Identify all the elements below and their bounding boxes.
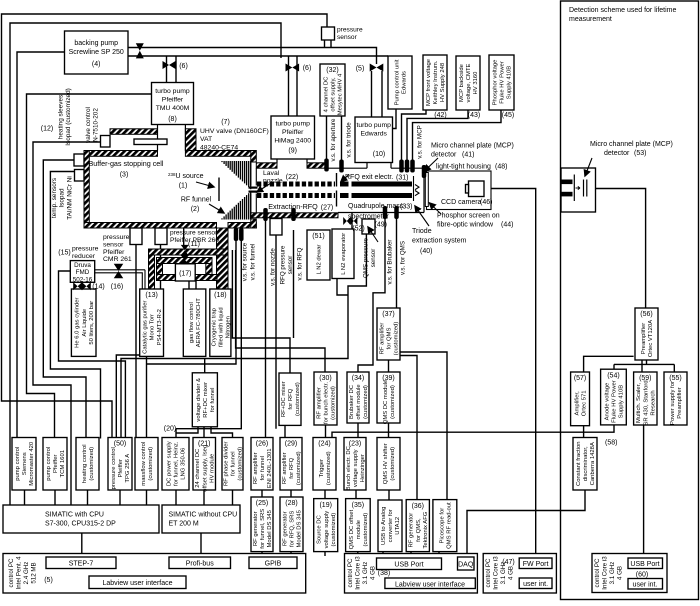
arrow U source bbox=[196, 182, 214, 187]
TMU neck left bbox=[157, 125, 159, 151]
svg-text:gas flow control: gas flow control bbox=[189, 302, 195, 343]
gas pipe coil inner band lower bbox=[157, 275, 218, 281]
valve 6 TMU bbox=[163, 61, 176, 69]
QMS chamber top wall right bbox=[391, 167, 424, 169]
svg-text:4 GB: 4 GB bbox=[507, 566, 514, 580]
svg-text:voltage supply: voltage supply bbox=[324, 511, 330, 549]
svg-text:VAT: VAT bbox=[200, 136, 212, 143]
wire TMU400M to pump control TCM bbox=[27, 94, 152, 438]
box constant fraction discriminator 58 bbox=[573, 438, 597, 491]
wire amplifier to CFD bbox=[583, 426, 585, 438]
box QMS HV shifter bbox=[377, 438, 400, 491]
box RF amplifier funnel 26 bbox=[251, 438, 273, 491]
svg-text:SIMATIC without CPU: SIMATIC without CPU bbox=[169, 512, 238, 519]
U-238 source rod bbox=[218, 178, 220, 202]
svg-text:offset module: offset module bbox=[356, 384, 362, 420]
svg-text:filled with liquid: filled with liquid bbox=[218, 307, 224, 347]
svg-text:(3): (3) bbox=[120, 172, 129, 179]
feedthrough MCP4 bbox=[422, 165, 427, 178]
pipe QMS to LN2 evaporator bbox=[351, 213, 353, 230]
box heating control bbox=[76, 438, 99, 491]
svg-text:(1): (1) bbox=[179, 183, 188, 190]
svg-text:Isopad (customized): Isopad (customized) bbox=[65, 88, 72, 146]
wire QMS RF to RF generator QMS bbox=[400, 356, 417, 500]
svg-text:(customized): (customized) bbox=[363, 513, 369, 547]
wire pressure reducer to pressure control bbox=[59, 271, 126, 438]
svg-text:ET 200 M: ET 200 M bbox=[169, 520, 199, 527]
Edwards neck right bbox=[390, 163, 392, 169]
box turbo pump HiMag 9 bbox=[271, 116, 315, 159]
svg-text:for funnel, SRS: for funnel, SRS bbox=[260, 509, 266, 549]
svg-text:(19): (19) bbox=[319, 502, 331, 509]
box port feedthrough bbox=[101, 136, 111, 148]
svg-text:pressure: pressure bbox=[72, 246, 99, 253]
box RF generator RFQ 28 bbox=[280, 497, 303, 552]
box port baffle slot bbox=[134, 139, 167, 145]
wire to anode voltage bbox=[613, 364, 615, 369]
pipe Druva to He cylinder bbox=[81, 282, 83, 289]
MCP small arrow bbox=[576, 186, 581, 189]
svg-text:Ortec VT120A: Ortec VT120A bbox=[648, 320, 654, 357]
svg-text:(28): (28) bbox=[285, 500, 297, 507]
arrow to MCP 53 bbox=[585, 158, 592, 176]
box bunch electr DC 23 bbox=[344, 438, 366, 491]
arrow RF funnel bbox=[209, 204, 224, 213]
wire voltage divider to 24ch supply bbox=[203, 427, 205, 438]
box Labview UI 1 bbox=[89, 576, 186, 589]
svg-text:Pfeiffer: Pfeiffer bbox=[118, 459, 124, 478]
wire vs nozzle to RF amplifier funnel bbox=[265, 218, 267, 438]
wire MCP front voltage 42 bbox=[402, 110, 427, 160]
svg-text:HV Supply 248: HV Supply 248 bbox=[440, 62, 446, 102]
svg-text:turbo pump: turbo pump bbox=[357, 122, 392, 129]
svg-text:Brubaker DC: Brubaker DC bbox=[349, 384, 355, 419]
gas pipe coil inner band upper bbox=[157, 258, 213, 264]
svg-text:(47): (47) bbox=[502, 559, 514, 566]
svg-text:(29): (29) bbox=[285, 441, 297, 448]
box MCP front voltage 42 bbox=[423, 55, 447, 110]
pipe into purifier bbox=[144, 270, 146, 289]
TMU neck right bbox=[184, 125, 186, 151]
svg-text:Bunch electr. DC: Bunch electr. DC bbox=[346, 445, 352, 490]
box Labview UI 2 bbox=[385, 578, 475, 589]
svg-text:offset supply, Iseg: offset supply, Iseg bbox=[202, 445, 208, 492]
svg-text:user int.: user int. bbox=[523, 581, 548, 588]
wire to SIMATIC2 bbox=[232, 490, 234, 505]
svg-text:(42): (42) bbox=[434, 112, 446, 119]
buffer-gas cell bottom wall left bbox=[84, 223, 217, 229]
wire backing pump to pump control Siemens bbox=[17, 52, 65, 438]
svg-text:(32): (32) bbox=[326, 67, 338, 74]
QMS chamber bottom wall bbox=[338, 212, 424, 214]
svg-text:Druva: Druva bbox=[74, 262, 91, 269]
box STEP-7 bbox=[46, 557, 116, 569]
wire MCP to preamplifier bbox=[588, 189, 646, 309]
triode electrode line bbox=[413, 176, 415, 201]
svg-text:v.s. for funnel: v.s. for funnel bbox=[250, 244, 257, 281]
box pump control TCM bbox=[43, 438, 67, 491]
box massflow control bbox=[135, 438, 158, 491]
svg-text:QMS HV shifter: QMS HV shifter bbox=[383, 443, 389, 484]
wire pressure sensor stub b bbox=[330, 40, 332, 48]
wire LN2 b to RF amplifier bunch bbox=[236, 250, 325, 372]
svg-text:Phosphor screen on: Phosphor screen on bbox=[437, 213, 500, 220]
wire to SIMATIC2 bbox=[203, 490, 205, 505]
svg-text:(24): (24) bbox=[318, 441, 330, 448]
svg-text:SR 430, Stanford: SR 430, Stanford bbox=[643, 380, 649, 425]
wire preamp to multichannel scaler bbox=[641, 357, 643, 372]
svg-text:extraction system: extraction system bbox=[412, 238, 467, 245]
svg-text:Profi-bus: Profi-bus bbox=[186, 561, 215, 568]
wire vs for QMS to RF amplifier bbox=[396, 216, 398, 308]
aperture electrode lower bbox=[336, 191, 338, 207]
svg-text:detector: detector bbox=[431, 152, 457, 159]
svg-text:Air Liquide: Air Liquide bbox=[82, 308, 88, 337]
aperture electrode upper bbox=[336, 173, 338, 187]
svg-text:Amplifier,: Amplifier, bbox=[575, 391, 581, 416]
box RF phase divider bbox=[222, 438, 243, 491]
svg-text:(5): (5) bbox=[356, 66, 365, 73]
phosphor screen 44 bbox=[425, 173, 428, 207]
svg-text:(38): (38) bbox=[378, 570, 390, 577]
wire bus pressure-sensor to pressure control bbox=[2, 14, 328, 438]
svg-text:RF amplifier: RF amplifier bbox=[316, 387, 322, 419]
svg-text:(50): (50) bbox=[114, 441, 126, 448]
svg-text:control PC: control PC bbox=[347, 558, 354, 587]
box cell feedthrough upper bbox=[74, 154, 84, 166]
svg-text:Pfeiffer: Pfeiffer bbox=[103, 249, 125, 256]
box SIMATIC without CPU bbox=[162, 505, 240, 533]
svg-text:Cryogenic trap: Cryogenic trap bbox=[211, 307, 217, 346]
svg-text:(44): (44) bbox=[501, 222, 513, 229]
svg-text:GPIB: GPIB bbox=[265, 561, 282, 568]
svg-text:(customized): (customized) bbox=[331, 513, 337, 547]
box phosphor voltage 45 bbox=[489, 55, 514, 110]
svg-text:Tektronix AFG: Tektronix AFG bbox=[423, 511, 429, 548]
wire vs Brubaker to Brubaker DC offset bbox=[358, 215, 385, 372]
svg-text:sensor: sensor bbox=[287, 256, 294, 275]
svg-text:Supply 410B: Supply 410B bbox=[619, 385, 625, 418]
wire to SIMATIC1 bbox=[146, 490, 148, 505]
wire Edwards tube right bbox=[381, 71, 383, 117]
wire RFQ pressure sensor down bbox=[275, 235, 277, 429]
svg-text:L N2 dewar: L N2 dewar bbox=[317, 245, 323, 275]
box cell feedthrough lower bbox=[75, 170, 85, 182]
svg-text:(customized): (customized) bbox=[296, 451, 302, 485]
svg-text:4 GB: 4 GB bbox=[616, 566, 623, 580]
wire HiMag tube left bbox=[288, 56, 290, 116]
svg-text:(17): (17) bbox=[179, 271, 191, 278]
wire multichannel scaler to USB port bbox=[643, 425, 645, 558]
box valve 17 bbox=[175, 264, 195, 281]
svg-text:v.s. for MCP: v.s. for MCP bbox=[417, 125, 424, 159]
box USB port 1 bbox=[377, 558, 442, 570]
wire CFD to DAQ bbox=[467, 490, 585, 558]
svg-text:Constant fraction: Constant fraction bbox=[576, 441, 582, 486]
svg-text:RF amplifier: RF amplifier bbox=[379, 323, 385, 355]
svg-text:(36): (36) bbox=[412, 503, 424, 510]
arrow Laval nozzle bbox=[257, 183, 271, 192]
svg-text:(6): (6) bbox=[303, 65, 312, 72]
wire to preamp power supply bbox=[673, 364, 675, 372]
box RF generator QMS 36 bbox=[406, 500, 429, 552]
svg-text:2.4 GHz: 2.4 GHz bbox=[23, 562, 30, 585]
box LN2 evaporator bbox=[332, 229, 354, 279]
box RF amplifier bunch 30 bbox=[314, 372, 337, 425]
svg-text:heating sleeves: heating sleeves bbox=[57, 95, 64, 139]
buffer-gas cell left wall bbox=[84, 151, 89, 229]
wire SIMATIC2 to Profibus bbox=[200, 533, 202, 558]
svg-text:pressure sensor: pressure sensor bbox=[170, 230, 218, 237]
wire into DC power supply funnel bbox=[175, 429, 177, 438]
svg-text:48240-CE74: 48240-CE74 bbox=[200, 144, 238, 151]
svg-text:(22): (22) bbox=[286, 174, 298, 181]
Laval nozzle lower bbox=[249, 191, 258, 193]
box DAQ bbox=[458, 557, 475, 570]
svg-text:(8): (8) bbox=[168, 116, 177, 123]
pipe to gas flow control a bbox=[188, 281, 190, 289]
extraction RFQ rod upper (dashed) bbox=[257, 182, 335, 187]
box FW port bbox=[519, 558, 552, 569]
box RF amplifier QMS 37 bbox=[377, 308, 400, 360]
svg-text:UTA12: UTA12 bbox=[395, 517, 401, 535]
svg-text:(30): (30) bbox=[319, 375, 331, 382]
svg-text:sensor: sensor bbox=[337, 34, 358, 41]
box backing pump 4 bbox=[65, 31, 129, 74]
svg-text:QMS DC offset: QMS DC offset bbox=[349, 509, 355, 549]
svg-text:CCD camera: CCD camera bbox=[441, 199, 482, 206]
svg-text:Phosphor voltage: Phosphor voltage bbox=[492, 59, 498, 106]
wire CMR sensor down bbox=[135, 245, 137, 439]
svg-text:(53): (53) bbox=[634, 150, 646, 157]
svg-text:for QMS,: for QMS, bbox=[416, 518, 422, 542]
box multichannel scaler 59 bbox=[634, 372, 657, 425]
svg-text:Fluke HV Power: Fluke HV Power bbox=[500, 61, 506, 104]
svg-text:(customized): (customized) bbox=[394, 322, 400, 356]
svg-text:v.s. for triode: v.s. for triode bbox=[346, 122, 353, 158]
svg-text:pressure: pressure bbox=[337, 27, 363, 34]
svg-text:Pfeiffer: Pfeiffer bbox=[53, 454, 59, 473]
svg-text:v.s. for RFQ: v.s. for RFQ bbox=[297, 247, 304, 280]
box light-tight housing 48 bbox=[427, 171, 492, 210]
box CCD camera lens bbox=[466, 185, 469, 194]
svg-text:HiMag 2400: HiMag 2400 bbox=[274, 137, 311, 144]
box QMS DC offset 35 bbox=[346, 499, 371, 552]
svg-text:(48): (48) bbox=[495, 164, 507, 171]
cell right wall upper line a bbox=[250, 162, 252, 186]
svg-text:Picoscope for: Picoscope for bbox=[439, 508, 445, 544]
box RF generator funnel 25 bbox=[251, 497, 273, 552]
svg-text:Intel Core i3: Intel Core i3 bbox=[492, 556, 499, 590]
extraction RFQ rod lower (dashed) bbox=[257, 193, 335, 198]
svg-text:voltage, CMTE: voltage, CMTE bbox=[466, 63, 472, 102]
svg-text:pressure control: pressure control bbox=[111, 447, 117, 489]
svg-text:(customized): (customized) bbox=[363, 385, 369, 419]
wire QMS DC offset stub bbox=[357, 552, 359, 556]
svg-text:(25): (25) bbox=[256, 500, 268, 507]
svg-text:TAI/NM NiCr Ni: TAI/NM NiCr Ni bbox=[66, 176, 73, 220]
svg-text:Intel Pent. 4: Intel Pent. 4 bbox=[15, 556, 22, 590]
svg-text:TPG 256 A: TPG 256 A bbox=[125, 454, 131, 483]
valve 6 HiMag bbox=[286, 64, 300, 72]
svg-text:SIMATIC with CPU: SIMATIC with CPU bbox=[45, 512, 104, 519]
svg-text:MCP backside: MCP backside bbox=[459, 63, 465, 102]
box QMS pressure sensor 49 bbox=[362, 219, 375, 234]
arrow RFQ exit electrode bbox=[341, 175, 349, 182]
UHV valve corner wall bbox=[185, 129, 196, 151]
svg-text:pump control: pump control bbox=[46, 447, 52, 481]
svg-text:ENI 240L-1301: ENI 240L-1301 bbox=[267, 448, 273, 488]
svg-text:Model DS 345: Model DS 345 bbox=[297, 509, 303, 547]
feedthrough MCP3 bbox=[410, 160, 415, 173]
wire LN2 a to RF+DC mixer RFQ bbox=[232, 250, 290, 373]
pumping port top wall bbox=[110, 129, 158, 135]
box Brubaker DC offset 34 bbox=[347, 372, 369, 423]
svg-text:Ortec 571: Ortec 571 bbox=[582, 390, 588, 416]
wire voltage divider to DC supply bbox=[176, 427, 198, 433]
HiMag neck left bbox=[276, 159, 278, 163]
svg-text:(57): (57) bbox=[574, 375, 586, 382]
wire backing line upper bbox=[128, 48, 377, 65]
gas pipe coil left column bbox=[149, 255, 155, 289]
svg-text:(49): (49) bbox=[375, 222, 387, 229]
svg-text:voltage divider &: voltage divider & bbox=[196, 378, 202, 422]
svg-text:RF amplifier: RF amplifier bbox=[282, 452, 288, 484]
svg-text:voltage supply: voltage supply bbox=[353, 449, 359, 487]
svg-text:STEP-7: STEP-7 bbox=[69, 561, 94, 568]
wire TMU tube left bbox=[166, 56, 168, 83]
svg-text:Pfeiffer: Pfeiffer bbox=[282, 129, 304, 136]
box user int 1 bbox=[519, 578, 552, 589]
svg-text:(45): (45) bbox=[502, 112, 514, 119]
svg-text:for funnel: for funnel bbox=[260, 456, 266, 481]
valve 52 b bbox=[350, 217, 357, 225]
svg-text:v.s. for source: v.s. for source bbox=[242, 242, 249, 281]
svg-text:pressure: pressure bbox=[103, 234, 130, 241]
wire bunch amp to trigger bbox=[325, 425, 327, 438]
svg-text:DAQ: DAQ bbox=[458, 562, 474, 569]
box pump control unit Edwards bbox=[388, 56, 412, 109]
extraction chamber bottom wall bbox=[251, 213, 338, 218]
arrow phosphor screen bbox=[430, 203, 442, 214]
svg-text:50 liters, 200 bar: 50 liters, 200 bar bbox=[89, 301, 95, 345]
wire USB-analog to USB port bbox=[382, 552, 384, 558]
box anode voltage 54 bbox=[601, 369, 627, 425]
svg-text:(18): (18) bbox=[214, 292, 226, 299]
svg-text:(58): (58) bbox=[605, 440, 617, 447]
svg-text:(customized): (customized) bbox=[326, 451, 332, 485]
triode chevron marks bbox=[415, 185, 419, 196]
box voltage divider funnel bbox=[192, 373, 217, 427]
feedthrough vs nozzle bbox=[263, 208, 268, 221]
svg-text:CMR 261: CMR 261 bbox=[103, 256, 132, 263]
svg-text:(2): (2) bbox=[191, 206, 200, 213]
svg-text:(31): (31) bbox=[396, 175, 408, 182]
QMS rod lower bbox=[340, 193, 349, 198]
box control PC 3 bbox=[483, 554, 556, 594]
svg-text:Edwards: Edwards bbox=[360, 130, 387, 137]
wire QMS DC module to QMS HV shifter bbox=[388, 423, 390, 438]
wire RF amp QMS to QMS DC module bbox=[388, 360, 390, 372]
box 4 channel DC offset 32 bbox=[320, 64, 345, 116]
box picoscope bbox=[433, 500, 457, 552]
svg-text:Screwline SP 250: Screwline SP 250 bbox=[69, 49, 124, 56]
box QMS DC module 39 bbox=[377, 372, 400, 423]
svg-text:Fluke HV Power: Fluke HV Power bbox=[612, 380, 618, 423]
svg-text:user int.: user int. bbox=[633, 582, 658, 589]
svg-text:Preamplifier: Preamplifier bbox=[641, 323, 647, 354]
valve 16 bbox=[114, 264, 124, 278]
feedthrough vs QMS bbox=[394, 206, 399, 219]
svg-text:valve control: valve control bbox=[85, 107, 92, 143]
svg-text:turbo pump: turbo pump bbox=[276, 121, 311, 128]
valve 11 pipe bbox=[181, 245, 189, 256]
svg-text:Isopad: Isopad bbox=[59, 188, 66, 208]
gas pipe vertical bbox=[217, 228, 229, 289]
svg-text:Power supply for: Power supply for bbox=[670, 381, 676, 425]
svg-text:massflow control: massflow control bbox=[141, 442, 147, 486]
svg-text:(46): (46) bbox=[480, 199, 492, 206]
detection scheme outer box bbox=[561, 1, 699, 600]
svg-text:Pfeiffer: Pfeiffer bbox=[162, 96, 184, 103]
wire port feedthrough to SIMATIC bbox=[33, 142, 101, 505]
svg-text:L N2 evaporator: L N2 evaporator bbox=[341, 233, 347, 275]
svg-text:(52): (52) bbox=[352, 226, 364, 233]
svg-text:3.1 GHz: 3.1 GHz bbox=[362, 562, 369, 585]
svg-text:Pump control unit: Pump control unit bbox=[395, 59, 401, 105]
feedthrough MCP1 bbox=[399, 160, 404, 173]
svg-text:USB to Analog: USB to Analog bbox=[381, 507, 387, 545]
svg-text:Mesytec MHV 4: Mesytec MHV 4 bbox=[338, 73, 344, 115]
svg-text:QMS pressure: QMS pressure bbox=[362, 238, 369, 278]
wire picoscope to USB port bbox=[438, 552, 440, 558]
svg-text:Supply 410B: Supply 410B bbox=[507, 66, 513, 99]
svg-text:24 channel DC: 24 channel DC bbox=[195, 448, 201, 488]
arrow triode 2 bbox=[368, 227, 378, 242]
wire PBR sensor to pressure control bbox=[116, 245, 160, 439]
svg-text:4 GB: 4 GB bbox=[369, 566, 376, 580]
svg-text:offset supply,: offset supply, bbox=[331, 77, 337, 112]
svg-text:turbo pump: turbo pump bbox=[155, 88, 190, 95]
svg-text:(customized): (customized) bbox=[331, 386, 337, 420]
svg-text:MCP front voltage: MCP front voltage bbox=[426, 58, 432, 106]
wire source DC stub bbox=[324, 552, 326, 556]
box pressure control 50 bbox=[108, 438, 132, 491]
svg-text:(4): (4) bbox=[92, 61, 101, 68]
box control PC 4 bbox=[592, 554, 667, 593]
svg-text:Micro channel plate (MCP): Micro channel plate (MCP) bbox=[431, 143, 514, 150]
svg-text:AERA FC-780CHT: AERA FC-780CHT bbox=[196, 298, 202, 348]
wire backing line lower to pump control unit bbox=[128, 55, 388, 57]
valve 14 b bbox=[82, 282, 91, 290]
feedthrough MCP2 bbox=[405, 160, 410, 173]
wire preamp branch bbox=[614, 363, 674, 365]
wire voltage divider to phase divider bbox=[211, 427, 233, 438]
svg-text:(43): (43) bbox=[468, 112, 480, 119]
svg-text:(customized): (customized) bbox=[390, 447, 396, 481]
svg-text:Multich. Scaler,: Multich. Scaler, bbox=[636, 383, 642, 423]
MCP anode lines bbox=[583, 180, 585, 197]
wire voltage divider riser bbox=[204, 359, 206, 373]
svg-text:spectrometer: spectrometer bbox=[348, 214, 390, 221]
wire CCD camera to FW port bbox=[484, 189, 536, 559]
svg-text:Catalytic gas purifier: Catalytic gas purifier bbox=[143, 300, 149, 353]
wire QMS HV shifter to USB-analog bbox=[388, 490, 390, 500]
box SIMATIC with CPU bbox=[3, 505, 159, 533]
svg-text:(51): (51) bbox=[312, 233, 324, 240]
svg-text:(11): (11) bbox=[188, 241, 200, 248]
svg-text:Canberra 1428A: Canberra 1428A bbox=[590, 442, 596, 485]
